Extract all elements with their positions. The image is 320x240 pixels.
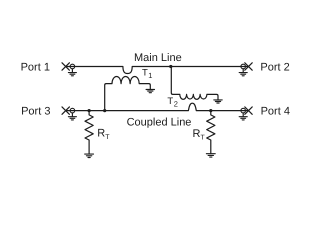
ground under port 1 bbox=[68, 69, 76, 76]
transformer T1 secondary winding bbox=[105, 76, 151, 110]
svg-text:Coupled Line: Coupled Line bbox=[127, 116, 192, 128]
wire main line with T1 primary notch bbox=[66, 67, 249, 74]
port 4 terminal X cross bbox=[245, 107, 252, 114]
svg-text:Port 1: Port 1 bbox=[21, 61, 50, 73]
ground under T2 secondary bbox=[214, 100, 222, 103]
ground under RT right bbox=[206, 154, 215, 157]
port 1 terminal circle bbox=[70, 64, 75, 69]
ground under port 4 bbox=[239, 113, 247, 120]
port 3 terminal circle bbox=[70, 108, 75, 113]
ground under T1 secondary bbox=[146, 90, 154, 93]
svg-text:T: T bbox=[142, 67, 148, 78]
svg-text:1: 1 bbox=[148, 71, 152, 80]
wire coupled line with T2 primary hump bbox=[66, 103, 249, 110]
svg-text:2: 2 bbox=[174, 100, 178, 109]
svg-text:T: T bbox=[201, 134, 206, 141]
svg-text:Port 2: Port 2 bbox=[260, 61, 289, 73]
node junction dot coupled line / T1 bbox=[103, 109, 106, 112]
port 2 terminal circle bbox=[241, 64, 246, 69]
resistor RT right bbox=[207, 111, 215, 154]
svg-text:Port 3: Port 3 bbox=[21, 106, 50, 118]
port 3 terminal X cross bbox=[62, 107, 69, 114]
resistor RT left bbox=[85, 111, 93, 154]
ground under port 3 bbox=[68, 113, 76, 120]
svg-text:Port 4: Port 4 bbox=[261, 106, 290, 118]
node junction dot main line / T2 bbox=[169, 65, 172, 68]
svg-text:Main Line: Main Line bbox=[134, 52, 182, 64]
ground under port 2 bbox=[239, 69, 247, 76]
port 1 terminal X cross bbox=[62, 63, 69, 70]
port 2 terminal X cross bbox=[245, 63, 252, 70]
ground under RT left bbox=[85, 154, 94, 157]
transformer T2 secondary winding bbox=[171, 67, 218, 100]
svg-text:R: R bbox=[97, 128, 105, 140]
node junction dot coupled line / RT left bbox=[88, 109, 91, 112]
node junction dot coupled line / RT right bbox=[209, 109, 212, 112]
svg-text:T: T bbox=[105, 134, 110, 141]
svg-text:T: T bbox=[167, 96, 173, 107]
svg-text:R: R bbox=[193, 128, 201, 140]
port 4 terminal circle bbox=[241, 108, 246, 113]
